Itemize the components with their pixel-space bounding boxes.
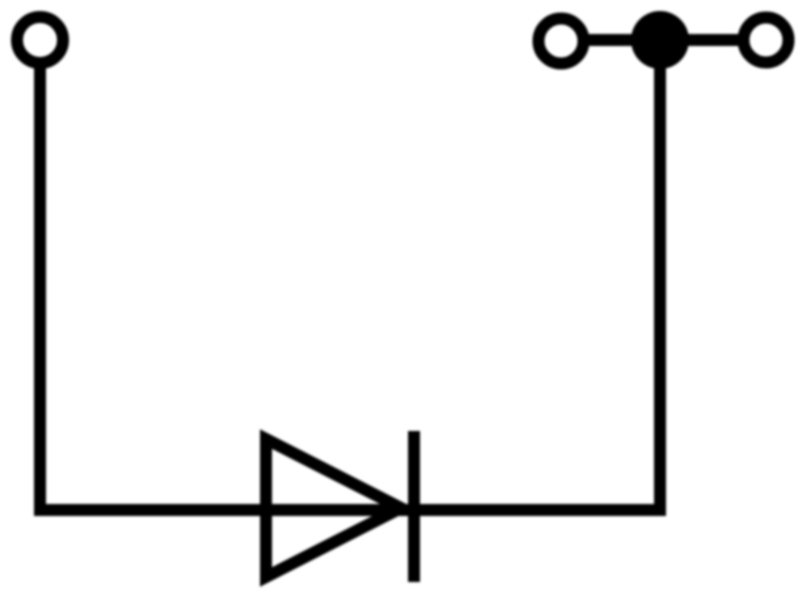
- junction node (filled dot): [631, 11, 689, 69]
- terminal circle (top-left): [17, 17, 63, 63]
- diode D1 triangle (anode): [266, 439, 401, 577]
- terminal circle (top-right, right of junction): [744, 18, 789, 63]
- diode D1 cathode bar: [408, 431, 420, 582]
- wire: top-right horizontal between terminals: [586, 34, 740, 46]
- wire: left vertical + bottom horizontal + right vertical: [40, 44, 660, 510]
- terminal circle (top-right, left of junction): [539, 19, 584, 64]
